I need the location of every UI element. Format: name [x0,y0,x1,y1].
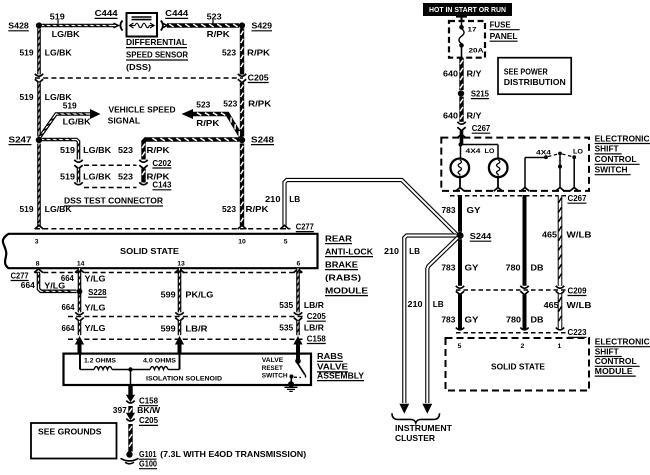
svg-text:S247: S247 [9,134,32,144]
svg-text:S429: S429 [252,21,273,31]
svg-text:519: 519 [60,171,75,181]
svg-text:210: 210 [265,194,281,204]
svg-text:RESET: RESET [262,365,284,372]
connector C267 dashed line below switch [450,195,566,197]
connector C202 dashed line [84,164,137,166]
electronic shift control module dashed box [446,338,590,391]
svg-text:PANEL: PANEL [490,31,518,41]
wire 640 R/Y fuse to S215 [460,58,463,90]
svg-text:13: 13 [177,261,185,268]
wire 523 R/PK branch to vehicle speed signal arrow [192,113,242,138]
svg-text:R/PK: R/PK [246,204,270,214]
splice S228 [77,289,83,295]
svg-text:523: 523 [196,100,210,110]
svg-text:4.0 OHMS: 4.0 OHMS [143,358,177,365]
splice S428 [36,22,42,28]
svg-text:C277: C277 [11,270,29,280]
svg-text:REAR: REAR [325,233,352,243]
svg-text:GY: GY [465,262,479,272]
svg-text:ELECTRONIC: ELECTRONIC [595,337,650,347]
wire end C223 465 [556,328,564,330]
svg-text:ANTI-LOCK: ANTI-LOCK [325,246,374,256]
svg-text:783: 783 [442,205,456,215]
svg-text:MODULE: MODULE [595,366,633,376]
svg-text:LB/R: LB/R [304,300,324,310]
svg-text:535: 535 [279,322,293,332]
svg-text:R/PK: R/PK [207,29,231,39]
svg-text:SIGNAL: SIGNAL [108,115,141,125]
wire 523 R/PK C202 to C143 [142,169,145,183]
svg-text:SWITCH: SWITCH [595,165,628,175]
svg-text:RABS: RABS [317,351,343,361]
svg-text:R/PK: R/PK [248,98,272,108]
svg-text:523: 523 [222,48,236,58]
splice S248 [239,137,245,143]
svg-text:CLUSTER: CLUSTER [395,433,435,443]
wire 599 PK/LG module pin 13 down [175,269,184,273]
svg-text:DSS TEST CONNECTOR: DSS TEST CONNECTOR [64,196,163,206]
differential speed sensor DSS [127,13,158,37]
svg-text:LG/BK: LG/BK [83,171,112,181]
svg-text:LG/BK: LG/BK [45,204,73,214]
svg-text:VALVE: VALVE [262,357,284,364]
svg-text:664: 664 [62,302,75,312]
svg-text:C267: C267 [568,193,587,203]
connector break C205 on wire 523 [238,74,246,76]
svg-text:1.2 OHMS: 1.2 OHMS [84,358,117,365]
svg-text:2: 2 [521,343,525,350]
connector C223 dashed line [456,332,566,334]
svg-text:G100: G100 [139,459,157,469]
svg-text:599: 599 [161,290,176,300]
svg-text:LG/BK: LG/BK [83,145,112,155]
svg-text:C444: C444 [95,8,118,18]
svg-text:VEHICLE SPEED: VEHICLE SPEED [109,105,176,115]
wire 519 LG/BK branch to vehicle speed signal arrow [39,113,91,138]
svg-text:S428: S428 [8,21,29,31]
indicator lamp LO [489,159,508,178]
wire 210 LB RABS module pin 5 up and over to S244 [285,180,457,235]
svg-text:LB: LB [289,194,300,204]
svg-text:4X4: 4X4 [536,150,551,157]
wire 599 LB/R C205 to C158 [178,321,180,335]
svg-text:R/Y: R/Y [467,111,482,121]
wire 523 R/PK C444 to S429 [167,24,239,27]
valve reset switch [296,354,300,359]
svg-text:SOLID STATE: SOLID STATE [491,362,545,372]
svg-text:523: 523 [222,204,236,214]
connector C209 dashed line [456,289,566,291]
svg-text:DISTRIBUTION: DISTRIBUTION [504,77,566,87]
connector break C205 on wire 519 [35,74,43,76]
connector break C205 on wire 535 [294,312,302,314]
connector C277 dashed line below RABS module [35,272,302,274]
wire 465 W/LB C209 to C223 [558,294,561,329]
svg-text:C202: C202 [152,158,171,168]
wire 783 GY switch to S244 [458,195,462,232]
connector break C205 on wire 599 [175,312,183,314]
wire 664 Y/LG C205 to C158 [78,321,80,335]
solenoid center tap node [128,367,132,371]
svg-text:ISOLATION SOLENOID: ISOLATION SOLENOID [146,375,222,382]
wire 519 LG/BK C205 down to S247 [38,83,40,137]
wire 535 LB/R module pin 6 down [294,269,303,273]
svg-text:Y/LG: Y/LG [85,274,106,284]
svg-text:519: 519 [63,101,77,111]
see power distribution box [498,58,571,94]
svg-text:LO: LO [573,148,583,155]
svg-text:S244: S244 [470,231,492,241]
svg-text:S228: S228 [88,287,107,297]
splice S429 [239,22,245,28]
wire 397 BK/W C158 to C205 [129,406,132,414]
wire into shift control switch [460,131,464,145]
svg-text:(RABS): (RABS) [325,272,361,282]
svg-text:ASSEMBLY: ASSEMBLY [317,370,364,380]
svg-text:R/PK: R/PK [147,145,171,155]
wire 783 GY C209 to C223 [458,294,462,329]
svg-text:1: 1 [558,343,562,350]
svg-text:R/Y: R/Y [467,69,482,79]
svg-text:664: 664 [61,273,74,283]
wire 210 LB S244 branch to instrument cluster right [427,238,458,403]
svg-text:C205: C205 [248,72,269,82]
svg-text:783: 783 [441,262,455,272]
fuse 17 20A [461,21,463,26]
electronic shift control switch dashed box [441,138,589,191]
male pin into valve assembly at C158 left [75,336,84,345]
svg-text:LO: LO [485,148,495,155]
svg-text:R/PK: R/PK [247,48,271,58]
svg-text:519: 519 [20,92,34,102]
svg-text:DIFFERENTIAL: DIFFERENTIAL [126,37,187,47]
svg-text:BRAKE: BRAKE [325,259,358,269]
svg-text:SHIFT: SHIFT [595,346,620,356]
svg-text:519: 519 [20,204,34,214]
splice S215 [458,90,464,96]
svg-text:523: 523 [223,98,237,108]
wire 523 R/PK S248 to DSS test connector [142,138,239,159]
connector break C209 on 465 [556,286,564,288]
wire 664 Y/LG module pin 14 down to S228 [75,269,84,273]
svg-text:DB: DB [531,314,544,324]
connector break C202 on wire 523 [139,160,147,162]
wire 519 LG/BK C202 to C143 [77,169,79,183]
svg-text:519: 519 [20,48,34,58]
instrument cluster brace [392,413,440,423]
svg-text:R/PK: R/PK [196,118,220,128]
svg-text:523: 523 [118,145,133,155]
svg-text:Y/LG: Y/LG [85,323,106,333]
svg-text:C267: C267 [472,123,491,133]
wire 519 LG/BK S247 to DSS test connector [42,138,80,159]
wire banner to fuse panel [461,14,463,22]
svg-text:397: 397 [113,405,127,415]
connector break C267 [457,122,465,124]
splice S247 [36,137,42,143]
svg-text:SOLID STATE: SOLID STATE [120,246,179,256]
svg-text:LB/R: LB/R [304,322,324,332]
svg-text:ELECTRONIC: ELECTRONIC [595,133,650,143]
wire end at C143 left [74,182,82,184]
svg-text:C209: C209 [568,285,587,295]
indicator lamp 4X4 [451,159,470,178]
svg-text:10: 10 [238,239,246,246]
svg-text:CONTROL: CONTROL [595,356,637,366]
lamp LO wire to C267 [497,177,499,188]
wire 523 R/PK S429 down to C205 [241,29,244,75]
svg-text:210: 210 [384,246,399,256]
svg-text:W/LB: W/LB [567,230,592,240]
svg-text:783: 783 [441,314,455,324]
wire 523 R/PK S248 down to RABS module pin 10 [241,144,244,226]
wire 519 LG/BK S247 down to RABS module pin 3 [38,144,40,226]
svg-text:LB: LB [409,246,420,256]
svg-text:C143: C143 [152,180,171,190]
wire 780 DB switch to C209 [523,195,527,286]
splice S244 [456,232,463,239]
svg-text:LG/BK: LG/BK [63,116,92,126]
connector C143 dashed line [84,187,137,189]
svg-text:664: 664 [62,323,75,333]
connector C277 dashed line above RABS module [35,228,291,230]
lamp feed node [459,143,463,147]
svg-text:C277: C277 [296,221,314,231]
wire end C223 783 [456,328,464,330]
svg-text:(7.3L WITH E4OD TRANSMISSION): (7.3L WITH E4OD TRANSMISSION) [160,449,306,459]
male pin at C205 pointing down [126,413,135,421]
wire 780 DB C209 to C223 [523,294,527,329]
svg-text:SPEED SENSOR: SPEED SENSOR [126,50,188,60]
svg-text:HOT IN START OR RUN: HOT IN START OR RUN [429,5,506,14]
connector break C205 on wire 664 [75,312,83,314]
svg-text:SEE POWER: SEE POWER [504,67,548,77]
wire 210 LB S244 branch to instrument cluster left [404,236,456,404]
see grounds box [31,423,117,459]
svg-text:C444: C444 [165,8,188,18]
svg-text:535: 535 [279,300,293,310]
svg-text:465: 465 [544,300,559,310]
wire 523 R/PK C205 down to S248 [241,83,244,137]
wire 640 R/Y S215 to C267 [460,97,463,122]
svg-text:G101: G101 [139,449,157,459]
svg-text:S248: S248 [251,134,274,144]
connector break C202 on wire 519 [74,160,82,162]
wire 535 LB/R C205 to C158 [297,321,299,335]
wire 465 W/LB switch to C209 [558,195,561,286]
svg-text:LB: LB [433,299,444,309]
connector C205 dashed line lower [68,316,304,318]
svg-text:(DSS): (DSS) [126,62,151,72]
svg-text:LB/R: LB/R [185,323,207,333]
svg-text:519: 519 [60,145,75,155]
svg-text:FUSE: FUSE [490,20,511,30]
svg-text:17: 17 [468,27,477,34]
svg-text:CONTROL: CONTROL [595,154,637,164]
valve reset switch ground [288,381,294,387]
svg-text:GY: GY [467,205,481,215]
RABS valve assembly box [64,354,312,385]
male pin into valve assembly at C158 middle [175,336,184,345]
svg-text:GY: GY [465,314,479,324]
male pin into valve assembly at C158 right [293,336,302,345]
wire 519 LG/BK S428 to C444 [42,24,115,26]
male pin at C158 pointing down [126,395,135,403]
connector break C209 on 783 [456,286,464,288]
svg-text:465: 465 [542,230,557,240]
svg-text:INSTRUMENT: INSTRUMENT [395,423,453,433]
svg-text:599: 599 [161,323,176,333]
svg-text:DB: DB [531,262,544,272]
svg-text:5: 5 [458,343,462,350]
wire 519 LG/BK S428 down to C205 [38,29,40,75]
svg-text:3: 3 [35,239,39,246]
svg-text:6: 6 [297,261,301,268]
svg-text:C158: C158 [307,333,326,343]
svg-text:Y/LG: Y/LG [85,303,106,313]
svg-text:BK/W: BK/W [137,405,161,415]
wire 397 BK/W C205 to ground G101 [129,424,132,452]
svg-text:640: 640 [443,111,458,121]
svg-text:523: 523 [118,171,133,181]
svg-text:14: 14 [77,261,85,268]
connector break C209 on 780 [520,286,528,288]
svg-text:LG/BK: LG/BK [45,48,73,58]
connector C158 dashed line [68,338,304,340]
wire end at C143 right [139,182,147,184]
wire 664 Y/LG module pin 8 jog to S228 [34,269,43,273]
svg-text:4X4: 4X4 [466,148,481,155]
svg-text:8: 8 [36,261,40,268]
svg-text:SEE GROUNDS: SEE GROUNDS [38,427,102,437]
rear anti-lock brake RABS module box [3,234,318,268]
svg-text:LG/BK: LG/BK [52,29,81,39]
svg-text:W/LB: W/LB [567,300,592,310]
svg-text:C223: C223 [568,327,587,337]
svg-text:5: 5 [284,239,288,246]
wire end C223 780 [520,328,528,330]
ground G101 G100 symbol [126,451,132,457]
svg-text:SHIFT: SHIFT [595,144,620,154]
svg-text:MODULE: MODULE [325,285,368,295]
lamp 4X4 wire to C267 [459,177,461,188]
fuse panel dashed box [449,21,485,58]
svg-text:664: 664 [21,280,35,290]
svg-text:C205: C205 [307,311,326,321]
connector C205 dashed line [35,77,243,79]
wire 783 GY S244 to C209 [458,239,462,286]
svg-text:210: 210 [408,299,423,309]
hot in start or run banner [423,3,512,16]
svg-text:780: 780 [506,262,521,272]
svg-text:523: 523 [207,11,222,21]
svg-text:S215: S215 [471,88,489,98]
svg-text:640: 640 [443,69,458,79]
svg-text:780: 780 [506,314,521,324]
svg-text:20A: 20A [469,48,484,55]
wire from solenoid to C158 [128,385,132,396]
svg-text:C205: C205 [139,415,158,425]
svg-text:PK/LG: PK/LG [185,290,213,300]
svg-text:SWITCH: SWITCH [262,373,288,380]
